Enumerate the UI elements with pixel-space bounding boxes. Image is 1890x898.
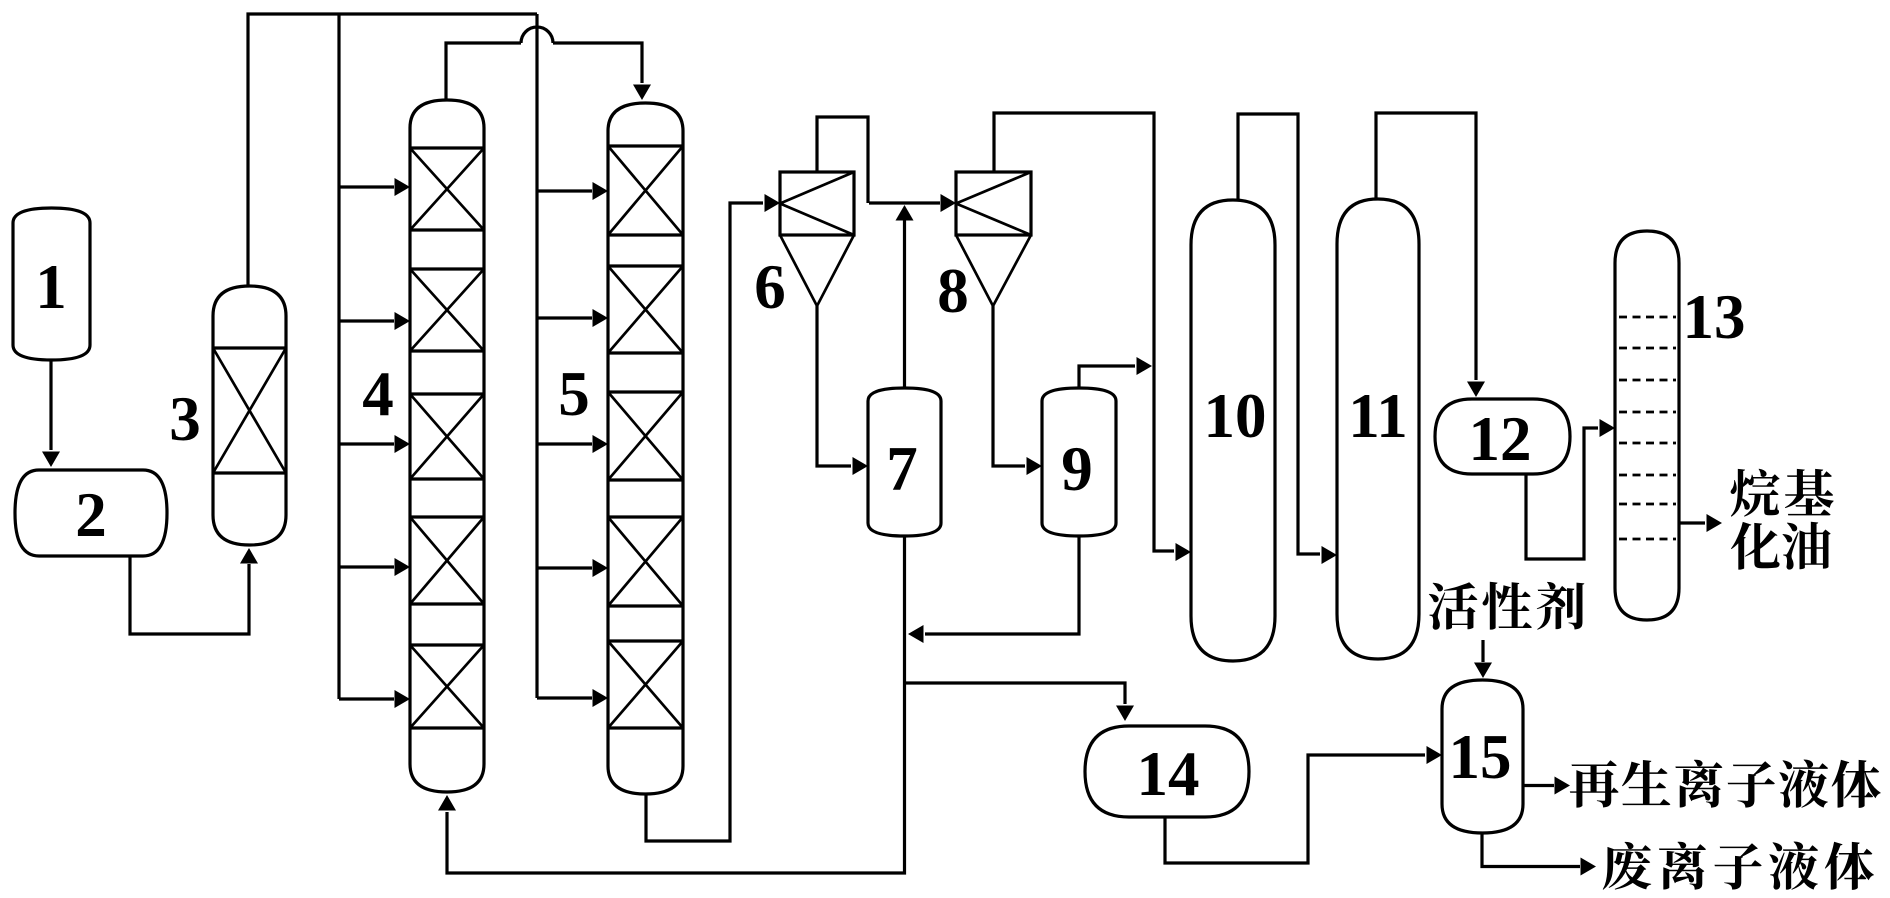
wire feed arrow 4-4 <box>339 558 410 576</box>
wire feed arrow 4-2 <box>339 312 410 330</box>
column 3 packing X-box <box>213 348 286 473</box>
separator 8 body <box>956 172 1031 306</box>
wire 7 bottoms recycle to 4 <box>438 536 905 873</box>
svg-text:15: 15 <box>1449 722 1512 792</box>
column 5 shell <box>608 103 683 794</box>
wire 8 overhead to 10 <box>994 113 1191 561</box>
label 5 <box>558 359 590 429</box>
wire feed arrow 5-3 <box>537 435 608 453</box>
label 7 <box>886 434 918 504</box>
svg-text:5: 5 <box>558 359 590 429</box>
wire 15 waste out <box>1482 833 1596 876</box>
wire feed arrow 5-1 <box>537 182 608 200</box>
vessel 1 (feed tank) <box>13 208 90 360</box>
wire 7 bottoms to 14 <box>905 683 1135 721</box>
wire 9 bottoms <box>908 536 1079 643</box>
vessel 2 (mixer drum) <box>15 470 167 556</box>
wire feed header col4 <box>337 14 340 699</box>
wire feed arrow 4-3 <box>339 435 410 453</box>
svg-text:6: 6 <box>754 252 786 322</box>
wire 13 product out <box>1679 514 1722 532</box>
wire 9 overhead <box>1079 357 1152 388</box>
vessel 12 <box>1435 399 1570 474</box>
svg-text:14: 14 <box>1137 739 1200 809</box>
wire 5 bottoms to 6 <box>646 194 780 841</box>
label 9 <box>1061 434 1093 504</box>
column 4 bed 1 <box>410 148 484 230</box>
wire feed arrow 4-1 <box>339 178 410 196</box>
wire 4 overhead to 5 <box>446 27 651 100</box>
svg-text:7: 7 <box>886 434 918 504</box>
column 3 shell <box>213 286 286 545</box>
text waste ionic liquid <box>1603 842 1874 890</box>
label 10 <box>1204 381 1267 451</box>
svg-text:4: 4 <box>362 359 394 429</box>
svg-text:10: 10 <box>1204 381 1267 451</box>
text activator <box>1429 582 1585 630</box>
label 6 <box>754 252 786 322</box>
label 13 <box>1683 282 1746 352</box>
label 1 <box>35 252 67 322</box>
text regenerated ionic liquid <box>1570 760 1881 808</box>
wire 6 to 7 <box>817 306 868 475</box>
vessel 14 <box>1085 726 1249 817</box>
label 8 <box>937 256 969 326</box>
column 5 bed 1 <box>608 146 683 235</box>
column 4 bed 4 <box>410 517 484 604</box>
wire 15 regenerated out <box>1523 777 1570 795</box>
text alkylate oil line1 <box>1731 469 1834 517</box>
text alkylate oil line2 <box>1731 522 1831 570</box>
wire feed arrow 5-2 <box>537 309 608 327</box>
label 3 <box>169 384 201 454</box>
vessel 9 <box>1042 388 1116 536</box>
label 2 <box>75 480 107 550</box>
label 11 <box>1348 381 1408 451</box>
wire 10 overhead to 11 <box>1238 114 1337 564</box>
column 10 shell <box>1191 200 1275 661</box>
column 5 bed 3 <box>608 392 683 480</box>
wire feed arrow 5-4 <box>537 559 608 577</box>
svg-text:9: 9 <box>1061 434 1093 504</box>
column 4 bed 5 <box>410 645 484 728</box>
column 4 bed 3 <box>410 394 484 479</box>
column 11 shell <box>1337 199 1419 659</box>
wire 8 to 9 <box>993 306 1042 475</box>
wire 2 to 3 <box>130 548 258 634</box>
vessel 15 <box>1442 680 1523 833</box>
column 4 bed 2 <box>410 269 484 351</box>
label 14 <box>1137 739 1200 809</box>
svg-text:11: 11 <box>1348 381 1408 451</box>
wire 6 overhead <box>817 117 868 203</box>
column 13 trays <box>1619 317 1676 539</box>
wire activator to 15 <box>1474 640 1492 678</box>
svg-text:8: 8 <box>937 256 969 326</box>
separator 6 body <box>780 172 854 306</box>
wire 12 to 13 <box>1526 419 1615 559</box>
label 15 <box>1449 722 1512 792</box>
column 5 bed 4 <box>608 517 683 606</box>
wire 1 to 2 <box>42 360 60 467</box>
wire 14 to 15 <box>1165 746 1442 863</box>
svg-text:3: 3 <box>169 384 201 454</box>
vessel 7 <box>868 388 941 536</box>
wire 11 overhead to 12 <box>1376 113 1485 397</box>
label 12 <box>1469 404 1532 474</box>
wire 6 to 8 <box>869 194 956 212</box>
column 5 bed 2 <box>608 266 683 353</box>
column 4 shell <box>410 100 484 792</box>
svg-text:1: 1 <box>35 252 67 322</box>
svg-text:13: 13 <box>1683 282 1746 352</box>
wire 3 overhead <box>248 14 537 286</box>
wire feed header col5 <box>535 14 538 698</box>
label 4 <box>362 359 394 429</box>
svg-text:2: 2 <box>75 480 107 550</box>
wire feed arrow 5-5 <box>537 689 608 707</box>
svg-text:12: 12 <box>1469 404 1532 474</box>
column 5 bed 5 <box>608 641 683 728</box>
wire feed arrow 4-5 <box>339 690 410 708</box>
wire 7 overhead <box>896 205 914 388</box>
column 13 shell <box>1615 231 1679 620</box>
